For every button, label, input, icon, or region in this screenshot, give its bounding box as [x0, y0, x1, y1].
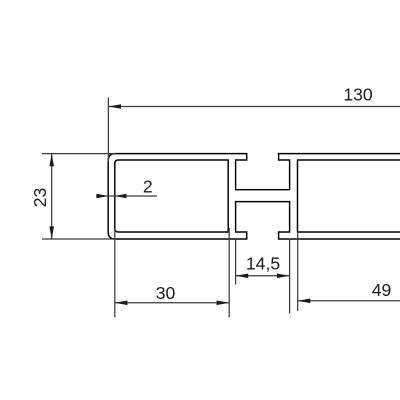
dim 30: arrowhead right [217, 301, 230, 306]
svg-text:14,5: 14,5 [246, 253, 280, 273]
dim 130: arrowhead [108, 104, 121, 109]
svg-text:49: 49 [372, 280, 392, 300]
profile outer contour (aluminium extrusion cross-section) [108, 154, 400, 239]
svg-text:130: 130 [343, 85, 373, 105]
dim 23: extension line bottom [42, 238, 116, 240]
dim 2: arrowhead right (outside, pointing left) [115, 194, 127, 198]
dim 30: extension line left [114, 228, 116, 317]
dim 23: dimension line [51, 154, 53, 239]
dim 14,5: extension line right [289, 239, 291, 314]
dim 49: arrowhead [298, 299, 311, 304]
dim 23: extension line top [42, 153, 116, 155]
dim 2: arrowhead left (outside, pointing right) [97, 194, 109, 198]
dim 49: dimension line [298, 300, 400, 302]
dim 14,5: arrowhead left [236, 274, 249, 279]
dim 23: arrowhead bottom [49, 226, 54, 239]
dim 49: extension line left [297, 232, 299, 311]
dim 14,5: extension line left [235, 239, 237, 285]
left box inner cavity [115, 160, 228, 232]
dim 30: extension line right [228, 228, 230, 317]
dim 130: extension line left [107, 98, 109, 163]
svg-text:2: 2 [143, 177, 153, 197]
svg-text:30: 30 [156, 283, 176, 303]
dim 14,5: arrowhead right [277, 274, 290, 279]
dim 30: arrowhead left [115, 301, 128, 306]
dim 130: dimension line [108, 106, 400, 108]
dim 30: dimension line [115, 302, 229, 304]
right box inner cavity [298, 160, 400, 232]
dim 14,5: dimension line [236, 275, 290, 277]
svg-text:23: 23 [30, 188, 50, 208]
dim 23: arrowhead top [49, 154, 54, 167]
dim 2: dimension line [96, 195, 157, 197]
